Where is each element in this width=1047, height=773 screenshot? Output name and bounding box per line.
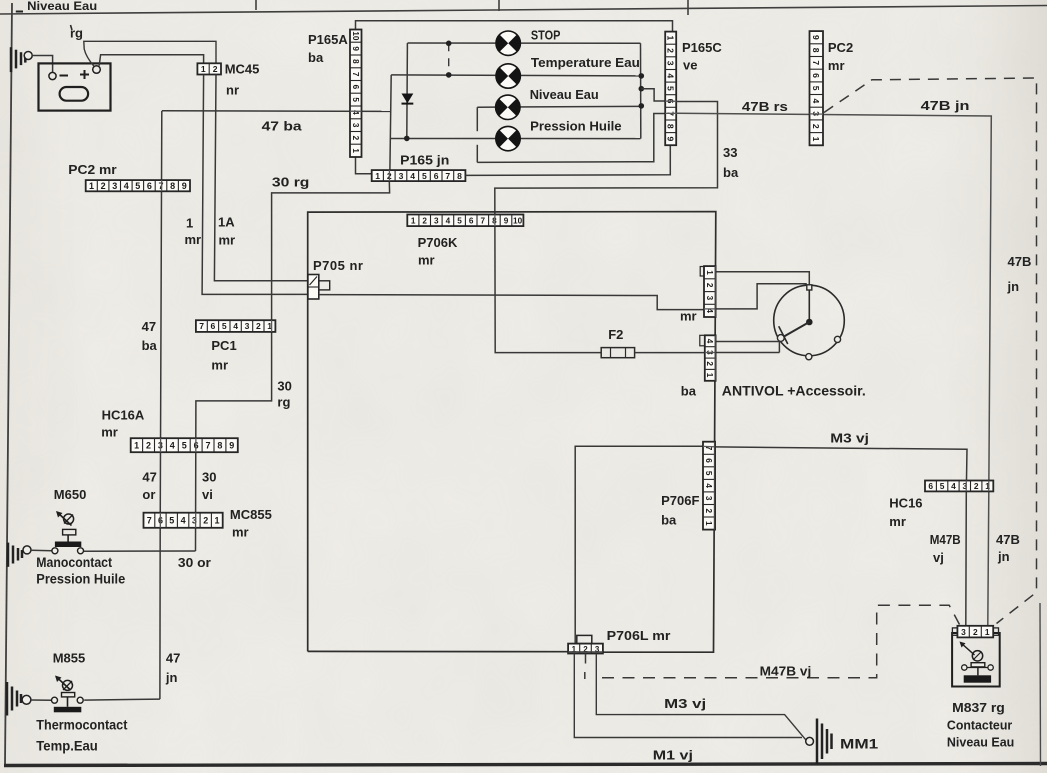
wire 1A mr: MC45 pin2 down to P705: [214, 75, 308, 281]
svg-text:4: 4: [811, 99, 821, 104]
instrument cluster box: [308, 212, 716, 653]
svg-text:5: 5: [182, 440, 187, 450]
svg-text:3: 3: [666, 61, 676, 66]
svg-text:mr: mr: [418, 253, 435, 268]
svg-text:HC16: HC16: [889, 496, 922, 511]
svg-text:jn: jn: [997, 549, 1010, 564]
svg-text:47B: 47B: [996, 532, 1020, 547]
svg-text:4: 4: [446, 217, 451, 226]
connector P165 jn: [372, 170, 466, 181]
title block tick 2: [687, 0, 689, 15]
wire M3 vj: P706F pin7 to HC16 pin3: [715, 447, 967, 626]
svg-text:MC45: MC45: [225, 62, 260, 77]
svg-text:2: 2: [213, 64, 218, 74]
svg-text:30 rg: 30 rg: [272, 175, 310, 190]
svg-text:1: 1: [134, 440, 139, 450]
svg-text:Pression Huile: Pression Huile: [530, 118, 622, 133]
svg-text:6: 6: [147, 181, 152, 191]
wire 1 mr: MC45 pin1 down to P705: [202, 75, 308, 295]
box edge overlay through antivol mr: [714, 266, 716, 317]
svg-text:M650: M650: [54, 487, 87, 502]
svg-text:ve: ve: [683, 58, 697, 73]
svg-text:1: 1: [214, 516, 219, 526]
wire left vertical x391: temp row to P165 jn pin2: [390, 75, 391, 170]
junction dot Temp row right: [639, 73, 645, 79]
wire branch to P165C pin6: [641, 89, 665, 101]
svg-text:jn: jn: [165, 670, 178, 685]
svg-text:47B: 47B: [1008, 254, 1032, 269]
svg-text:M1 vj: M1 vj: [653, 748, 693, 763]
lamp Temperature Eau: [496, 64, 520, 88]
svg-text:M855: M855: [53, 651, 86, 666]
wire overlay branch through P165C pin6: [665, 100, 676, 102]
svg-text:2: 2: [705, 361, 714, 366]
svg-text:P706L mr: P706L mr: [607, 628, 671, 643]
dashed 47B jn path top right: [824, 78, 1037, 624]
svg-text:5: 5: [666, 86, 676, 91]
svg-text:4: 4: [410, 171, 415, 181]
svg-text:2: 2: [705, 283, 714, 288]
connector P706K: [407, 215, 523, 227]
title block tick 1: [498, 0, 500, 11]
svg-text:8: 8: [170, 181, 175, 191]
connector P705: [308, 275, 330, 300]
box edge overlay through P706F: [714, 442, 716, 530]
wire overlay 30 through P165 jn pin2: [388, 170, 390, 181]
box edge overlay through antivol ba: [714, 335, 716, 381]
svg-text:1: 1: [705, 270, 714, 275]
page bottom border: [4, 764, 1047, 766]
wire antivol mr pin4 to rotor top: [716, 284, 807, 309]
svg-text:ba: ba: [308, 50, 324, 65]
connector antivol ba (4-1): [705, 335, 716, 381]
svg-text:HC16A: HC16A: [102, 408, 145, 423]
svg-text:3: 3: [245, 321, 250, 331]
connector P706L tab: [577, 635, 592, 643]
svg-text:PC2: PC2: [828, 40, 853, 55]
svg-text:1: 1: [666, 36, 676, 41]
junction dot Niveau row right: [639, 103, 645, 109]
svg-text:Niveau Eau: Niveau Eau: [27, 0, 97, 13]
wire overlay 47 through HC16A pin3: [160, 438, 162, 452]
wire P705 to antivol mr pin4: [319, 295, 704, 310]
wire P165A pin1 to P165 jn pin1: [356, 157, 372, 174]
wire 47: long vertical through PC2 HC16A MC855: [160, 111, 162, 699]
svg-text:6: 6: [434, 171, 439, 181]
svg-text:M3 vj: M3 vj: [830, 431, 869, 446]
ground M650: [8, 543, 31, 567]
svg-text:1: 1: [89, 181, 94, 191]
junction dot pin6 branch: [639, 86, 645, 92]
svg-text:10: 10: [351, 31, 360, 41]
svg-text:ANTIVOL +Accessoir.: ANTIVOL +Accessoir.: [722, 384, 866, 399]
svg-text:3: 3: [434, 217, 439, 226]
svg-text:1: 1: [201, 64, 206, 74]
wire diode branch vertical: [406, 43, 409, 138]
connector HC16: [925, 481, 993, 492]
svg-text:4: 4: [170, 440, 175, 450]
connector P165C: [665, 32, 676, 146]
page left border: [5, 3, 12, 765]
lamp Pression Huile: [496, 126, 520, 150]
connector PC2 (left): [86, 180, 190, 191]
svg-text:PC1: PC1: [211, 338, 236, 353]
svg-text:9: 9: [811, 35, 821, 40]
wire overlay 47ba through P165A pin4: [350, 110, 362, 112]
ignition switch S1 ANTIVOL: [774, 285, 845, 360]
svg-text:7: 7: [205, 440, 210, 450]
svg-text:3: 3: [704, 496, 713, 501]
connector PC2 (right): [810, 31, 824, 145]
svg-text:3: 3: [112, 181, 117, 191]
svg-text:mr: mr: [680, 309, 697, 324]
wire overlay 30 through PC1 pin1: [271, 320, 273, 332]
page right border (bottom part): [1039, 603, 1042, 766]
wire overlay through P706K pin8: [494, 215, 496, 227]
svg-text:mr: mr: [211, 358, 228, 373]
svg-text:4: 4: [951, 481, 956, 491]
svg-text:3: 3: [399, 171, 404, 181]
svg-text:Manocontact: Manocontact: [36, 555, 112, 570]
wire P706L pin1 up and over to P706F pin7: [575, 446, 703, 643]
svg-text:P165C: P165C: [682, 40, 722, 55]
svg-text:7: 7: [445, 171, 450, 181]
ground MB (battery): [11, 47, 32, 72]
junction dot STOP row: [446, 41, 452, 47]
svg-text:5: 5: [940, 481, 945, 491]
svg-text:47: 47: [166, 651, 180, 666]
svg-text:30: 30: [202, 470, 216, 485]
wire 1: battery + to MC45 pin 1: [99, 55, 203, 66]
wire Niveau left drop (hops Pression row): [476, 107, 478, 131]
svg-text:1: 1: [811, 137, 821, 142]
svg-text:1: 1: [411, 217, 416, 226]
junction dashed STOP-Temp: [448, 43, 450, 75]
lamp STOP: [496, 31, 520, 55]
svg-text:5: 5: [135, 181, 140, 191]
page title Niveau Eau (cut off): [16, 11, 23, 13]
svg-text:mr: mr: [219, 233, 236, 248]
svg-text:5: 5: [704, 471, 713, 476]
svg-text:9: 9: [182, 181, 187, 191]
svg-text:P706F: P706F: [661, 493, 699, 508]
svg-text:Temp.Eau: Temp.Eau: [36, 739, 98, 754]
diode V1: [402, 94, 414, 104]
svg-text:6: 6: [469, 217, 474, 226]
svg-text:30: 30: [277, 379, 291, 394]
junction dot Temp row left: [446, 72, 452, 78]
contactor M837 box: [952, 633, 1000, 687]
wire P165C pin6 to P706K pin8 and F2: [495, 102, 718, 353]
wire overlay 47 through PC2 left pin7: [161, 180, 163, 191]
wire 47B rs to right then down to M837 pin1: [676, 113, 991, 626]
wire overlay 30 through HC16A pin6: [195, 438, 197, 452]
svg-text:8: 8: [666, 124, 676, 129]
svg-text:1: 1: [985, 481, 990, 491]
svg-text:M3 vj: M3 vj: [664, 696, 706, 711]
svg-text:8: 8: [811, 48, 821, 53]
svg-text:2: 2: [811, 124, 821, 129]
svg-text:M47B: M47B: [930, 532, 961, 547]
wire 47 jn to thermocontact: [84, 699, 160, 700]
svg-text:7: 7: [481, 217, 486, 226]
svg-text:4: 4: [666, 73, 676, 78]
svg-text:8: 8: [217, 440, 222, 450]
svg-text:8: 8: [457, 171, 462, 181]
connector M837 (3-1): [957, 626, 993, 638]
svg-text:4: 4: [233, 321, 238, 331]
wire F2 to antivol ba pin3: [635, 352, 705, 354]
svg-text:10: 10: [513, 217, 523, 226]
svg-text:mr: mr: [185, 232, 202, 247]
svg-text:2: 2: [256, 321, 261, 331]
wire overlay 30 through MC855 pin3: [195, 513, 197, 528]
svg-text:1: 1: [704, 521, 713, 526]
svg-text:mr: mr: [232, 525, 249, 540]
wire 30 or to manocontact: [83, 550, 195, 552]
svg-text:9: 9: [504, 217, 509, 226]
svg-text:9: 9: [351, 46, 360, 51]
svg-text:ba: ba: [681, 384, 697, 399]
thermocontact M855: [52, 676, 84, 713]
svg-text:F2: F2: [608, 327, 623, 342]
svg-text:5: 5: [222, 321, 227, 331]
wire M47B stub below P706L: [585, 654, 587, 664]
svg-text:5: 5: [169, 516, 174, 526]
svg-text:MM1: MM1: [840, 737, 879, 752]
battery BB: [39, 63, 111, 110]
svg-text:5: 5: [422, 171, 427, 181]
svg-text:P705 nr: P705 nr: [313, 258, 363, 273]
wire 47 ba horizontal to P165A pin 4: [162, 110, 391, 113]
wire antivol ba pins to contact: [716, 341, 780, 343]
connector MC855: [144, 513, 223, 528]
svg-text:4: 4: [705, 339, 714, 344]
wire overlay 47B through PC2 right pin3: [810, 113, 824, 115]
wire overlay 47B through P165C pin7: [665, 112, 676, 114]
svg-text:2: 2: [974, 481, 979, 491]
page top border: [0, 6, 1047, 15]
svg-text:1: 1: [375, 171, 380, 181]
svg-text:4: 4: [704, 483, 713, 488]
svg-text:47B rs: 47B rs: [742, 99, 788, 114]
wire ground to battery negative: [32, 56, 52, 73]
svg-text:3: 3: [705, 296, 714, 301]
junction dot diode bottom: [404, 136, 410, 142]
connector P706L: [568, 644, 603, 654]
svg-text:vj: vj: [933, 550, 944, 565]
svg-text:2: 2: [203, 516, 208, 526]
connector P165A: [350, 30, 362, 158]
wire P165 jn pin8 to P165C pin9: [465, 145, 670, 175]
wire overlay through antivol mr pin4: [704, 308, 716, 310]
ground M855: [7, 682, 31, 716]
svg-text:7: 7: [199, 321, 204, 331]
svg-text:9: 9: [666, 137, 676, 142]
connector HC16A: [131, 438, 238, 452]
wire overlay M3 through P706F pin7: [703, 445, 715, 447]
svg-text:47 ba: 47 ba: [262, 119, 303, 134]
wire 30 rg: P165 jn pin2 to PC1/HC16A: [196, 181, 390, 551]
wire ground to M855: [31, 699, 52, 701]
wire Niveau row: [477, 105, 640, 108]
wire lamp box top: P165A pin10 to P165C pin1: [356, 21, 673, 32]
svg-text:2: 2: [422, 217, 427, 226]
wire rg: battery + to MC45 pin 2: [84, 41, 216, 66]
svg-text:1A: 1A: [218, 215, 235, 230]
svg-text:30 or: 30 or: [178, 555, 211, 570]
lamp Niveau Eau: [496, 95, 520, 119]
svg-text:PC2 mr: PC2 mr: [68, 162, 116, 177]
svg-text:Temperature Eau: Temperature Eau: [531, 55, 640, 70]
svg-text:33: 33: [723, 145, 737, 160]
svg-text:7: 7: [147, 516, 152, 526]
svg-text:M47B vj: M47B vj: [760, 664, 812, 679]
svg-text:2: 2: [351, 136, 360, 141]
fuse F2: [601, 348, 634, 358]
contactor M837 switch symbol: [960, 642, 994, 683]
svg-text:jn: jn: [1007, 279, 1020, 294]
wire lamps right common vertical: [640, 43, 642, 138]
wire overlay through antivol ba pin3: [705, 352, 716, 354]
svg-text:nr: nr: [226, 83, 239, 98]
svg-text:47: 47: [142, 319, 156, 334]
svg-text:M837 rg: M837 rg: [952, 700, 1005, 715]
svg-text:3: 3: [351, 123, 360, 128]
svg-text:1: 1: [186, 216, 193, 231]
svg-text:Niveau Eau: Niveau Eau: [947, 735, 1014, 750]
box edge overlay through P706L: [568, 651, 603, 653]
svg-text:8: 8: [351, 59, 360, 64]
ground MM1: [806, 719, 832, 765]
svg-text:2: 2: [973, 627, 978, 637]
svg-text:7: 7: [351, 72, 360, 77]
svg-text:47: 47: [142, 470, 156, 485]
svg-text:7: 7: [811, 60, 821, 65]
svg-text:3: 3: [961, 627, 966, 637]
svg-text:2: 2: [704, 509, 713, 514]
svg-text:P165A: P165A: [308, 32, 348, 47]
svg-text:P165 jn: P165 jn: [400, 153, 449, 168]
svg-text:1: 1: [351, 148, 360, 153]
dashed M47B vj bottom run: [602, 605, 960, 678]
wire overlay 47B through HC16 pin1: [988, 481, 990, 492]
svg-text:MC855: MC855: [230, 507, 272, 522]
svg-text:6: 6: [704, 458, 713, 463]
connector PC1: [196, 320, 276, 332]
svg-text:mr: mr: [828, 58, 845, 73]
connector P706F: [703, 442, 715, 530]
wire STOP row: [408, 42, 641, 44]
svg-text:1: 1: [705, 373, 714, 378]
svg-text:ba: ba: [661, 513, 677, 528]
svg-text:4: 4: [124, 181, 129, 191]
svg-text:mr: mr: [101, 425, 118, 440]
wire overlay M3 through HC16 pin3: [965, 481, 967, 492]
svg-text:mr: mr: [889, 514, 906, 529]
svg-text:1: 1: [985, 627, 990, 637]
svg-text:vi: vi: [202, 487, 213, 502]
connector antivol mr (1-4): [704, 266, 716, 317]
svg-text:2: 2: [101, 181, 106, 191]
svg-text:STOP: STOP: [531, 29, 561, 43]
svg-text:or: or: [142, 487, 155, 502]
svg-text:Pression Huile: Pression Huile: [36, 572, 125, 587]
svg-text:Niveau Eau: Niveau Eau: [530, 87, 599, 102]
manocontact M650: [52, 511, 84, 554]
svg-text:Contacteur: Contacteur: [947, 718, 1012, 733]
svg-text:6: 6: [928, 481, 933, 491]
connector MC45: [197, 63, 221, 74]
svg-text:6: 6: [211, 321, 216, 331]
svg-text:5: 5: [457, 217, 462, 226]
wire M3 vj: P706L pin3 to MM1: [596, 654, 806, 740]
svg-text:2: 2: [666, 48, 676, 53]
svg-text:5: 5: [811, 86, 821, 91]
title block tick 0: [255, 0, 257, 10]
svg-text:4: 4: [181, 516, 186, 526]
svg-text:rg: rg: [277, 395, 290, 410]
wire Pression row: [390, 138, 640, 140]
wire Temperature row: [391, 75, 641, 76]
svg-text:Thermocontact: Thermocontact: [36, 718, 128, 733]
wire Niveau bottom to P165C pin7: [477, 114, 665, 163]
svg-text:ba: ba: [723, 165, 739, 180]
wire ground to M650: [31, 549, 52, 551]
wire antivol mr pin1 to rotor top: [716, 272, 810, 285]
svg-text:ba: ba: [142, 338, 158, 353]
svg-text:P706K: P706K: [418, 235, 458, 250]
wire overlay 47 through MC855 pin6: [159, 513, 161, 528]
svg-text:6: 6: [811, 73, 821, 78]
svg-text:6: 6: [351, 85, 360, 90]
svg-text:9: 9: [229, 440, 234, 450]
wire M1 vj: P706L pin1 to MM1: [574, 654, 802, 738]
svg-text:5: 5: [351, 97, 360, 102]
svg-text:2: 2: [146, 440, 151, 450]
svg-text:47B jn: 47B jn: [921, 98, 970, 113]
